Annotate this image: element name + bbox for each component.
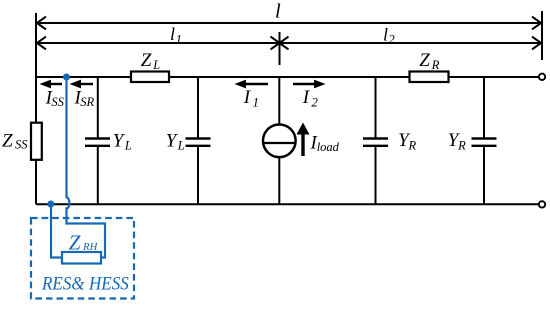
svg-text:2: 2 [388, 32, 395, 47]
capacitor YR1 [363, 139, 388, 146]
svg-text:Z: Z [141, 50, 152, 71]
svg-text:I: I [302, 87, 311, 108]
svg-text:SS: SS [15, 138, 28, 152]
label ZRH [69, 230, 99, 254]
dimension mid tick [279, 32, 281, 65]
svg-text:load: load [317, 140, 340, 154]
resistor ZL [131, 72, 169, 83]
label l2 [383, 24, 395, 46]
wire ZRH blue branch [51, 77, 105, 258]
label YR1 [398, 130, 416, 153]
svg-text:Y: Y [166, 131, 179, 152]
svg-text:RH: RH [82, 241, 99, 253]
svg-text:Z: Z [69, 230, 81, 254]
resistor ZSS [31, 123, 42, 160]
arrow I1 [235, 80, 269, 89]
wire bottom bus [36, 203, 539, 205]
svg-text:RES& HESS: RES& HESS [41, 274, 129, 295]
svg-text:SR: SR [80, 95, 94, 109]
svg-text:l: l [383, 24, 388, 44]
wire center branch [278, 77, 280, 204]
arrow ISR [70, 80, 94, 89]
node top blue dot [63, 74, 70, 81]
arrow I2 [293, 80, 326, 89]
svg-text:Z: Z [419, 50, 430, 71]
svg-text:Y: Y [113, 131, 126, 152]
svg-text:SS: SS [51, 95, 64, 109]
svg-text:l: l [170, 24, 175, 44]
label ISS [45, 87, 65, 109]
dimension extension line left [35, 13, 37, 77]
svg-text:R: R [457, 139, 466, 153]
label ZL [141, 50, 160, 72]
svg-text:R: R [431, 58, 440, 72]
svg-text:R: R [408, 139, 417, 153]
dashed box RES HESS [31, 218, 134, 299]
label YL2 [166, 131, 185, 153]
terminal top right [539, 74, 545, 80]
label I1 [243, 87, 259, 109]
capacitor YL1 [85, 139, 110, 146]
svg-text:L: L [152, 58, 160, 72]
label ISR [74, 87, 95, 109]
wire YL1 branch [97, 77, 99, 204]
dimension extension line right [541, 11, 543, 60]
wire YL2 branch [197, 77, 199, 204]
node bottom blue dot [47, 201, 54, 208]
wire YR1 branch [375, 77, 377, 204]
resistor ZR [410, 72, 449, 83]
dimension line l1 [37, 37, 280, 50]
label YL1 [113, 131, 132, 153]
current source Iload [263, 125, 296, 158]
resistor ZRH [62, 252, 101, 264]
svg-text:I: I [243, 87, 252, 108]
svg-text:1: 1 [253, 95, 260, 110]
label ZR [419, 50, 439, 72]
svg-text:2: 2 [311, 95, 318, 110]
label YR2 [448, 130, 466, 153]
wire left vertical [35, 76, 37, 204]
dimension line l [37, 17, 541, 30]
label l1 [170, 24, 182, 47]
arrow Iload [297, 123, 310, 157]
svg-text:Z: Z [2, 130, 13, 151]
terminal bottom right [539, 201, 545, 207]
capacitor YL2 [186, 139, 211, 146]
svg-text:l: l [275, 0, 281, 22]
svg-text:1: 1 [176, 32, 183, 47]
label I2 [302, 87, 319, 109]
wire YR2 branch [483, 77, 485, 204]
label ZSS [2, 130, 28, 151]
dimension line l2 [280, 37, 542, 50]
label Iload [310, 133, 340, 155]
arrow ISS [40, 80, 63, 89]
capacitor YR2 [472, 139, 497, 146]
svg-text:L: L [177, 138, 185, 152]
svg-text:L: L [124, 138, 132, 152]
wire top bus [36, 76, 539, 78]
